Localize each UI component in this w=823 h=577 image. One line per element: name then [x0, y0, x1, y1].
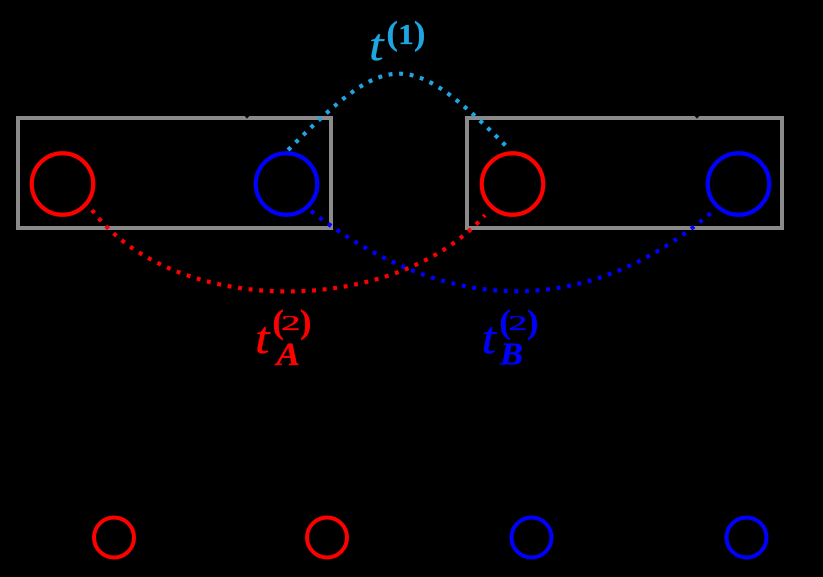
svg-text:2: 2	[281, 311, 301, 335]
svg-text:A: A	[274, 337, 300, 373]
label tB(2)	[482, 304, 539, 372]
unit cell box 1	[18, 118, 331, 228]
svg-text:2: 2	[508, 311, 527, 335]
svg-text:(: (	[387, 16, 398, 53]
unit cell box 2	[467, 118, 782, 228]
bottom chain site 4 (blue)	[727, 518, 767, 558]
bottom chain site 3 (blue)	[512, 518, 552, 558]
hopping tA2 arc (red dotted)	[92, 210, 485, 291]
label tA(2)	[255, 304, 311, 373]
svg-text:1: 1	[398, 19, 414, 51]
tick notch box 1	[244, 116, 250, 119]
svg-text:t: t	[255, 313, 271, 363]
site A2 (red circle, box 2)	[482, 153, 544, 215]
svg-text:t: t	[482, 313, 498, 363]
svg-text:): )	[300, 304, 311, 341]
hopping t1 arc (cyan dotted)	[288, 74, 508, 150]
bottom chain site 2 (red)	[307, 518, 347, 558]
svg-text:): )	[527, 304, 538, 341]
bottom chain site 1 (red)	[94, 518, 134, 558]
site B2 (blue circle, box 2)	[708, 153, 770, 215]
label t(1)	[369, 16, 425, 70]
site A1 (red circle, box 1)	[32, 153, 94, 215]
site B1 (blue circle, box 1)	[256, 153, 318, 215]
hopping tB2 arc (blue dotted)	[311, 211, 712, 291]
svg-text:t: t	[369, 20, 385, 70]
tick notch box 2	[694, 116, 700, 119]
svg-text:B: B	[499, 336, 523, 372]
svg-text:): )	[414, 16, 425, 53]
